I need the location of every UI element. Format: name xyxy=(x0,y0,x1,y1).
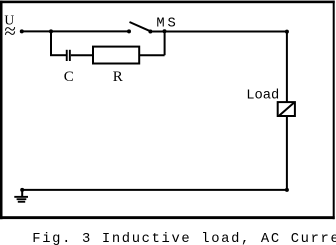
switch MS right contact xyxy=(148,30,152,34)
node bottom-right corner xyxy=(285,188,289,192)
svg-text:≈: ≈ xyxy=(4,19,16,43)
svg-text:MS: MS xyxy=(156,17,178,32)
wire resistor to riser xyxy=(139,54,164,56)
switch MS lever xyxy=(130,22,151,31)
wire ground stub xyxy=(21,190,23,196)
ground xyxy=(14,196,28,203)
node U terminal dot xyxy=(20,29,24,33)
svg-text:Fig. 3 Inductive load, AC Curr: Fig. 3 Inductive load, AC Current xyxy=(32,231,336,245)
svg-text:Load: Load xyxy=(246,87,279,103)
node top-right corner xyxy=(285,30,289,34)
switch MS left contact xyxy=(127,29,131,33)
wire top: switch to top-right corner xyxy=(150,31,287,33)
load box xyxy=(278,102,295,116)
svg-text:C: C xyxy=(64,69,74,85)
node junction snubber top xyxy=(49,29,53,33)
wire riser to top wire xyxy=(164,32,166,56)
resistor R xyxy=(93,47,139,64)
node junction R branch top xyxy=(163,29,167,33)
node ground junction xyxy=(20,188,24,192)
wire top-left: U terminal to switch left contact xyxy=(22,30,129,32)
wire right vertical upper xyxy=(286,32,288,103)
wire capacitor to resistor xyxy=(71,54,93,56)
wire bottom xyxy=(22,189,287,191)
wire right vertical lower xyxy=(286,117,288,190)
svg-text:R: R xyxy=(113,69,123,85)
load diagonal xyxy=(279,103,294,116)
wire snubber to capacitor xyxy=(50,54,66,56)
capacitor C xyxy=(66,50,71,61)
wire snubber drop vertical xyxy=(50,31,52,55)
